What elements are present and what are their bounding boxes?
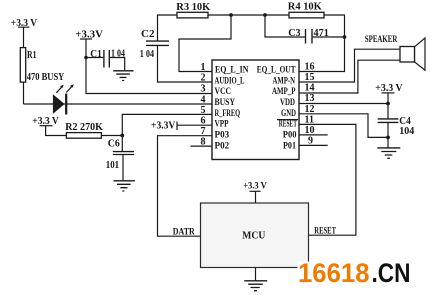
wire pin 14 AMP_P to speaker bottom bbox=[299, 60, 400, 93]
wire pin 7 P03 down to MCU DATR bbox=[158, 136, 213, 237]
svg-text:R_FREQ: R_FREQ bbox=[215, 108, 241, 118]
svg-text:GND: GND bbox=[281, 108, 296, 118]
svg-text:VDD: VDD bbox=[280, 97, 295, 107]
capacitor C4 bbox=[378, 116, 415, 148]
wire pin 10 P00 stub bbox=[299, 134, 328, 136]
MCU U2 body bbox=[201, 203, 309, 268]
svg-text:.CN: .CN bbox=[372, 258, 411, 288]
node C4 bottom junction bbox=[386, 136, 390, 140]
svg-text:VCC: VCC bbox=[215, 86, 232, 96]
svg-text:SPEAKER: SPEAKER bbox=[365, 34, 398, 44]
resistor R4 bbox=[288, 2, 324, 18]
wire MCU ground stem bbox=[255, 268, 257, 281]
svg-text:P00: P00 bbox=[283, 130, 297, 140]
svg-text:C3: C3 bbox=[288, 28, 300, 39]
svg-text:R3 10K: R3 10K bbox=[176, 2, 210, 13]
svg-text:+3.3 V: +3.3 V bbox=[243, 181, 267, 191]
node R2/C6 junction bbox=[120, 134, 124, 138]
capacitor C6 bbox=[106, 139, 134, 181]
svg-text:C6: C6 bbox=[108, 139, 120, 150]
power +3.3V at VPP bbox=[151, 121, 177, 132]
wire junction up to pin 5 R_FREQ bbox=[122, 114, 212, 135]
svg-text:8: 8 bbox=[201, 137, 206, 148]
svg-text:R4 10K: R4 10K bbox=[288, 2, 322, 13]
wire R4 right down to pin 16 EQ_L_OUT bbox=[299, 15, 345, 72]
svg-text:11: 11 bbox=[305, 114, 314, 125]
IC U1 body bbox=[212, 60, 299, 160]
svg-text:P02: P02 bbox=[215, 140, 230, 150]
capacitor C2 bbox=[140, 29, 169, 60]
ground at C6 bbox=[114, 181, 135, 191]
svg-text:2: 2 bbox=[201, 73, 206, 84]
wire junction down to C6 bbox=[121, 136, 123, 152]
svg-text:R2 270K: R2 270K bbox=[65, 122, 103, 133]
node C3 left tap bbox=[263, 13, 267, 17]
ground at C4 bbox=[377, 148, 400, 158]
wire LED row to pin 4 BUSY bbox=[24, 103, 213, 105]
wire R1 bottom to LED row bbox=[23, 82, 25, 104]
svg-text:+3.3V: +3.3V bbox=[151, 121, 176, 132]
svg-text:AUDIO_L: AUDIO_L bbox=[215, 75, 245, 85]
svg-text:16: 16 bbox=[305, 61, 315, 72]
svg-text:BUSY: BUSY bbox=[215, 97, 236, 107]
wire pin 12 GND to C4 bottom bbox=[299, 114, 388, 138]
wire tap down to C3 bbox=[265, 15, 305, 37]
svg-text:C1: C1 bbox=[90, 49, 102, 60]
svg-text:5: 5 bbox=[201, 105, 206, 116]
svg-text:AMP_P: AMP_P bbox=[272, 86, 296, 96]
node C3 right junction bbox=[343, 35, 347, 39]
svg-text:16618: 16618 bbox=[298, 258, 370, 288]
svg-text:7: 7 bbox=[201, 126, 206, 137]
svg-text:1: 1 bbox=[201, 62, 206, 73]
power +3.3V rail top-left bbox=[11, 18, 38, 48]
svg-text:14: 14 bbox=[305, 83, 315, 94]
svg-text:6: 6 bbox=[201, 116, 206, 127]
capacitor C1 bbox=[86, 48, 125, 70]
ground at MCU bbox=[244, 281, 267, 291]
resistor R1 bbox=[20, 48, 65, 83]
svg-text:EQ_L_IN: EQ_L_IN bbox=[215, 65, 249, 75]
node C1 tap bbox=[84, 56, 88, 60]
svg-text:AMP-N: AMP-N bbox=[273, 75, 296, 85]
svg-text:1 04: 1 04 bbox=[140, 49, 154, 60]
svg-text:R1: R1 bbox=[27, 50, 37, 61]
wire pin 15 AMP-N to speaker top bbox=[299, 49, 400, 82]
svg-text:104: 104 bbox=[399, 126, 414, 137]
power +3.3V at C4 bbox=[375, 83, 403, 94]
svg-text:9: 9 bbox=[308, 135, 313, 146]
power +3.3V at MCU bbox=[243, 181, 267, 191]
svg-text:DATR: DATR bbox=[173, 226, 195, 236]
svg-text:10: 10 bbox=[305, 125, 315, 136]
svg-text:12: 12 bbox=[305, 104, 315, 115]
wire pin 9 P01 stub bbox=[299, 144, 328, 146]
wire R3 right to R4 left bbox=[208, 14, 289, 16]
svg-text:EQ_L_OUT: EQ_L_OUT bbox=[257, 65, 296, 75]
wire to pin 6 VPP bbox=[177, 124, 212, 126]
wire R2 right to junction bbox=[101, 135, 122, 137]
LED D1 bbox=[53, 84, 74, 114]
svg-text:MCU: MCU bbox=[242, 230, 265, 242]
svg-text:470 BUSY: 470 BUSY bbox=[27, 72, 65, 83]
svg-text:C2: C2 bbox=[141, 29, 155, 40]
svg-text:4: 4 bbox=[201, 95, 206, 106]
pin name RESET with overline bbox=[277, 119, 298, 129]
power +3.3V at C1 bbox=[75, 29, 104, 40]
node EQ feedback junction bbox=[229, 13, 233, 17]
svg-text:101: 101 bbox=[106, 160, 119, 171]
svg-text:P01: P01 bbox=[283, 140, 296, 150]
power +3.3V at R2 bbox=[32, 116, 59, 127]
wire pin 8 P02 stub bbox=[191, 145, 213, 147]
wire +3.3V to MCU top bbox=[255, 191, 257, 203]
wire pin 11 RESET to MCU bbox=[299, 124, 356, 235]
wire pin 13 VDD bbox=[299, 103, 388, 105]
watermark backing bbox=[298, 262, 414, 287]
svg-text:P03: P03 bbox=[215, 130, 230, 140]
wire junction down to pin 1 EQ_L_IN bbox=[179, 15, 231, 72]
resistor R2 bbox=[65, 122, 103, 138]
node VDD junction bbox=[386, 102, 390, 106]
speaker LS1 bbox=[365, 34, 425, 70]
svg-text:13: 13 bbox=[305, 93, 315, 104]
capacitor C3 bbox=[288, 28, 344, 44]
wire +3.3V down to C4 bbox=[387, 93, 389, 119]
svg-text:15: 15 bbox=[305, 72, 315, 83]
svg-text:3: 3 bbox=[201, 84, 206, 95]
wire +3.3V to R2 left bbox=[46, 126, 67, 136]
ground at C1 bbox=[113, 71, 133, 81]
wire C2 top to R3 left bbox=[158, 15, 178, 41]
svg-text:VPP: VPP bbox=[215, 119, 229, 129]
resistor R3 bbox=[176, 2, 210, 18]
wire +3.3V down to pin 3 VCC bbox=[86, 39, 212, 94]
wire C2 bottom to pin 2 AUDIO_L bbox=[158, 45, 213, 82]
svg-text:RESET: RESET bbox=[314, 226, 336, 236]
